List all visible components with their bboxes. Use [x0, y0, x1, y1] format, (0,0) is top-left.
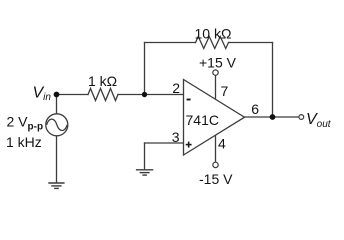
resistor R1 1 kOhm zigzag	[88, 89, 118, 101]
svg-text:1 kΩ: 1 kΩ	[88, 73, 117, 89]
op-amp U1 741C triangle	[184, 80, 245, 156]
wire input from Vin node to R1	[57, 94, 89, 96]
svg-text:10 kΩ: 10 kΩ	[195, 26, 232, 42]
wire feedback top right	[229, 42, 273, 44]
wire feedback top left to R2	[145, 42, 196, 44]
op-amp plus input sign	[186, 142, 192, 148]
ground at pin 3	[136, 170, 153, 175]
svg-text:3: 3	[172, 129, 180, 145]
node A junction dot (R1/R2/pin2)	[142, 92, 147, 97]
wire feedback vertical right down to output node	[272, 43, 274, 118]
op-amp minus input sign	[187, 99, 191, 101]
wire pin 7 to +15V terminal	[215, 75, 217, 99]
wire pin 3 down to ground	[144, 143, 146, 170]
resistor R2 10 kOhm zigzag	[196, 37, 229, 49]
svg-text:7: 7	[221, 83, 229, 99]
svg-text:-15 V: -15 V	[199, 171, 233, 187]
terminal -15V open circle	[213, 162, 218, 167]
svg-text:741C: 741C	[186, 112, 219, 128]
svg-text:4: 4	[218, 135, 226, 151]
svg-text:2: 2	[172, 80, 180, 96]
wire source bottom to ground	[56, 136, 58, 183]
wire output from op-amp pin 6 to Vout terminal	[245, 116, 299, 118]
wire pin 4 to -15V terminal	[215, 135, 217, 162]
node Vin terminal dot	[54, 92, 60, 98]
ground under source	[48, 183, 64, 188]
wire Vin node down to source	[56, 95, 58, 115]
source V1 sine wave	[47, 119, 68, 130]
node output junction dot	[270, 114, 276, 120]
svg-text:+15 V: +15 V	[199, 55, 237, 71]
wire op-amp pin 3 stub	[145, 142, 184, 144]
terminal Vout open circle	[299, 115, 304, 120]
wire from R1 to op-amp pin 2	[118, 94, 184, 96]
terminal +15V open circle	[213, 70, 218, 75]
svg-text:1 kHz: 1 kHz	[6, 134, 42, 150]
svg-text:6: 6	[251, 101, 259, 117]
source V1 sine generator circle	[46, 114, 68, 136]
wire feedback vertical left (node A up)	[144, 43, 146, 95]
